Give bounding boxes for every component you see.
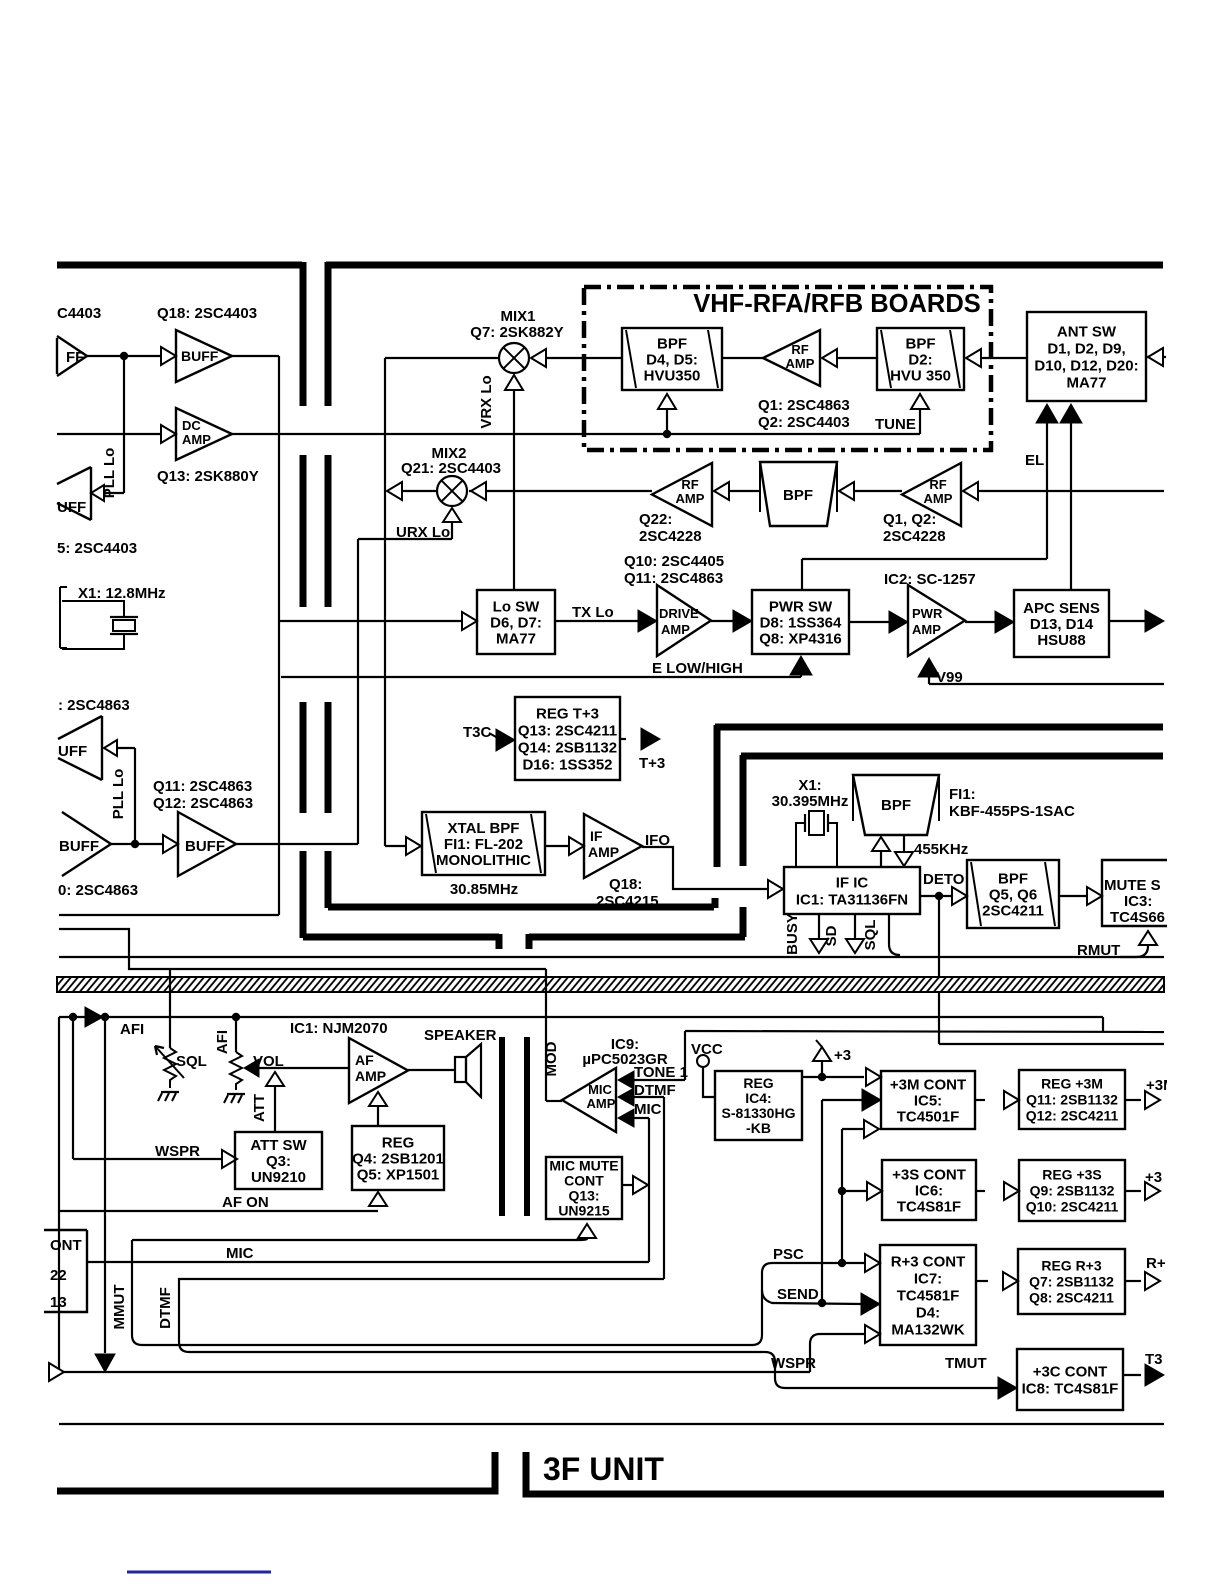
svg-text:30.395MHz: 30.395MHz: [772, 793, 849, 810]
svg-text:AFI: AFI: [120, 1021, 144, 1038]
wire heavy board-border B inner top horizontal y=727: [715, 724, 1163, 731]
svg-text:SD: SD: [823, 925, 840, 946]
wire BPF to RF AMP Q1Q2: [851, 490, 902, 492]
wire BPF455 up arrow: [880, 852, 882, 867]
box +3C CONT IC8: [1017, 1349, 1123, 1410]
filter BPF middle: [760, 462, 837, 526]
svg-text:IC5:: IC5:: [914, 1092, 942, 1109]
svg-text:T3: T3: [1145, 1351, 1163, 1368]
amplifier RF AMP (in dashed box): [763, 330, 820, 386]
wire REG R+3 output: [1125, 1280, 1141, 1282]
svg-text:MUTE S: MUTE S: [1104, 877, 1161, 894]
resistor potentiometer VOL: [230, 1052, 242, 1090]
wire RF AMP to BPF D2: [837, 357, 877, 359]
wire WSPR route: [810, 1334, 865, 1372]
wire VOL pot feed: [235, 1017, 237, 1052]
svg-text:R+: R+: [1146, 1255, 1166, 1272]
svg-text:UFF: UFF: [57, 499, 86, 516]
svg-text:MA77: MA77: [1066, 374, 1106, 391]
wire bus y=957: [59, 956, 1164, 958]
svg-text:REG: REG: [382, 1134, 415, 1151]
svg-text:UN9215: UN9215: [558, 1202, 610, 1218]
svg-text:REG R+3: REG R+3: [1041, 1257, 1102, 1273]
wire DTMF input: [618, 1088, 634, 1106]
wire BUFF Q18 output to corner x279: [232, 355, 279, 357]
amplifier PWR AMP IC2: [908, 585, 965, 656]
buffer amp BUFF Q18: [161, 347, 176, 365]
svg-text:TX Lo: TX Lo: [572, 604, 614, 621]
mixer MIX2 Q21: [437, 476, 467, 506]
buffer amp partial bottom-left: [62, 812, 111, 876]
svg-text:IC3:: IC3:: [1124, 893, 1152, 910]
svg-text:PLL Lo: PLL Lo: [110, 769, 127, 820]
wire DRIVE to PWR SW: [711, 620, 734, 622]
svg-text:TONE 1: TONE 1: [634, 1064, 688, 1081]
wire PSC vertical to +3M/+3S: [841, 1129, 843, 1263]
wire XTAL BPF to IF AMP: [545, 845, 568, 847]
svg-text:KBF-455PS-1SAC: KBF-455PS-1SAC: [949, 803, 1075, 820]
svg-text:Q18: 2SC4403: Q18: 2SC4403: [157, 305, 257, 322]
svg-text:BPF: BPF: [881, 797, 911, 814]
svg-text:+3C CONT: +3C CONT: [1033, 1363, 1108, 1380]
svg-text:MIC MUTE: MIC MUTE: [549, 1157, 618, 1173]
wire buffer output to junction: [87, 355, 160, 357]
wire MIX2 input from RF AMP: [469, 490, 652, 492]
svg-text:HVU350: HVU350: [644, 367, 701, 384]
wire DTMF route: [179, 1279, 765, 1352]
box VHF-RFA/RFB BOARDS dashed border: [584, 287, 991, 450]
wire MIC route: [87, 1261, 649, 1263]
svg-text:AMP: AMP: [355, 1068, 386, 1084]
svg-text:WSPR: WSPR: [771, 1355, 816, 1372]
wire bottom thin line: [59, 1423, 1164, 1425]
svg-text:AMP: AMP: [924, 491, 953, 506]
svg-text:ATT SW: ATT SW: [250, 1137, 307, 1154]
amplifier MIC AMP IC9: [562, 1068, 616, 1132]
svg-text:13: 13: [50, 1294, 67, 1311]
svg-text:Q22:: Q22:: [639, 511, 672, 528]
svg-text:WSPR: WSPR: [155, 1143, 200, 1160]
svg-text:D13, D14: D13, D14: [1030, 616, 1094, 633]
svg-text:AMP: AMP: [912, 622, 941, 637]
box ATT SW Q3 UN9210: [235, 1132, 322, 1189]
wire MIC input: [618, 1109, 634, 1127]
wire T+3 output: [620, 738, 626, 740]
wire V99: [918, 658, 940, 677]
wire REG +3M output: [1125, 1099, 1141, 1101]
svg-text:-KB: -KB: [746, 1120, 771, 1136]
svg-text:TC4581F: TC4581F: [897, 1287, 960, 1304]
filter BPF D4 D5 HVU350: [622, 328, 722, 390]
buffer amp partial top-left: [57, 336, 87, 376]
wire VOL wiper to AF AMP: [244, 1059, 259, 1077]
svg-text:+3S CONT: +3S CONT: [892, 1166, 966, 1183]
svg-text:PWR: PWR: [912, 606, 943, 621]
svg-text:Q18:: Q18:: [609, 876, 642, 893]
box +3M CONT IC5: [881, 1071, 975, 1129]
svg-text:Q5: XP1501: Q5: XP1501: [357, 1166, 440, 1183]
svg-text:D2:: D2:: [908, 351, 932, 368]
svg-text:D6, D7:: D6, D7:: [490, 614, 542, 631]
svg-text:REG: REG: [743, 1075, 773, 1091]
svg-text:T+3: T+3: [639, 755, 665, 772]
crystal X1 30.395MHz: [804, 814, 806, 832]
box ANT SW: [1027, 312, 1146, 401]
svg-text:Q5, Q6: Q5, Q6: [989, 886, 1037, 903]
svg-text:Q8: 2SC4211: Q8: 2SC4211: [1029, 1289, 1114, 1305]
wire MIX1 input from BPF: [546, 357, 622, 359]
wire PLL Lo feedback down: [123, 356, 125, 493]
amplifier DRIVE AMP: [657, 585, 711, 656]
svg-text:IC8: TC4S81F: IC8: TC4S81F: [1022, 1380, 1119, 1397]
resistor potentiometer SQL: [164, 1048, 176, 1088]
wire left border vertical: [58, 1017, 60, 1372]
svg-text:TC4S81F: TC4S81F: [897, 1198, 961, 1215]
speaker symbol: [408, 1069, 455, 1071]
svg-text:FI1: FL-202: FI1: FL-202: [444, 836, 523, 853]
svg-text:IC1: NJM2070: IC1: NJM2070: [290, 1020, 388, 1037]
wire +3C output: [1123, 1374, 1141, 1376]
svg-text:XTAL BPF: XTAL BPF: [448, 820, 520, 837]
power +3 flag: [821, 1062, 823, 1077]
wire RF input from right: [978, 490, 1164, 492]
box MUTE S IC3 (cut at edge): [1102, 860, 1180, 926]
svg-text:IC4:: IC4:: [745, 1090, 771, 1106]
wire TONE1/top line to edge: [685, 1031, 1164, 1032]
mixer MIX1 Q7: [499, 343, 529, 373]
wire ATT arrow up: [266, 1072, 284, 1086]
wire MIC MUTE bottom input: [578, 1224, 596, 1238]
wire VRX Lo vertical: [513, 375, 515, 590]
wire DETO output: [920, 895, 951, 897]
svg-text:S-81330HG: S-81330HG: [722, 1105, 796, 1121]
svg-text:BUFF: BUFF: [59, 838, 99, 855]
svg-text:0: 2SC4863: 0: 2SC4863: [58, 882, 138, 899]
wire +3M to REG: [975, 1099, 985, 1101]
svg-text:MMUT: MMUT: [111, 1285, 128, 1330]
svg-text:+3M CONT: +3M CONT: [890, 1076, 966, 1093]
svg-text:RF: RF: [681, 477, 698, 492]
svg-text:D1, D2, D9,: D1, D2, D9,: [1047, 340, 1125, 357]
box REG R+3: [1018, 1249, 1125, 1314]
svg-text:Lo SW: Lo SW: [493, 598, 540, 615]
svg-text:X1:: X1:: [798, 777, 821, 794]
svg-text:BPF: BPF: [998, 870, 1028, 887]
svg-text:Q13: 2SK880Y: Q13: 2SK880Y: [157, 468, 259, 485]
wire +3M input arrows: [866, 1068, 881, 1086]
svg-text:: 2SC4863: : 2SC4863: [58, 697, 130, 714]
wire DTMF vertical x=664: [663, 1097, 665, 1279]
svg-text:REG +3M: REG +3M: [1041, 1075, 1103, 1091]
svg-text:Q14: 2SB1132: Q14: 2SB1132: [518, 739, 617, 756]
wire BPF D2 up arrow TUNE: [919, 410, 921, 434]
buffer amp BUFF Q11 Q12: [163, 835, 178, 853]
svg-text:DRIVE: DRIVE: [659, 606, 699, 621]
wire PWR SW to PWR AMP: [849, 621, 890, 623]
wire SD down arrow: [854, 914, 856, 938]
wire SQL curve to bus: [889, 914, 900, 955]
wire TUNE line y=434 (DC AMP output): [232, 433, 920, 435]
svg-text:Q13: 2SC4211: Q13: 2SC4211: [518, 722, 617, 739]
wire BUFF3 out: [111, 843, 162, 845]
wire AF ON line: [59, 1210, 378, 1212]
svg-text:TC4501F: TC4501F: [897, 1108, 960, 1125]
wire heavy board-border A left vertical dashes x=303: [300, 262, 307, 406]
filter XTAL BPF FI1 FL-202: [422, 812, 545, 875]
svg-text:+3: +3: [1145, 1169, 1162, 1186]
wire heavy board-border A lower horizontal y=937: [303, 934, 499, 941]
wire URX Lo to MIX2: [358, 538, 452, 540]
svg-text:ONT: ONT: [50, 1237, 82, 1254]
box REG IC4 S-81330HG-KB: [715, 1071, 802, 1140]
svg-text:MIC: MIC: [588, 1082, 612, 1097]
svg-text:AMP: AMP: [786, 356, 815, 371]
svg-text:BPF: BPF: [783, 487, 813, 504]
svg-text:+3: +3: [834, 1047, 851, 1064]
wire T3C input: [496, 729, 515, 751]
amplifier AF AMP IC1: [349, 1038, 408, 1103]
wire BPF D2 input: [978, 357, 1027, 359]
amplifier RF AMP Q22: [652, 463, 712, 526]
wire PLL2 feedback: [134, 748, 136, 844]
wire ANT SW input from right: [1146, 356, 1166, 358]
svg-text:ANT SW: ANT SW: [1057, 323, 1117, 340]
wire TX Lo: [555, 620, 638, 622]
box REG T+3: [515, 697, 620, 780]
box REG +3S: [1019, 1160, 1125, 1221]
svg-text:VCC: VCC: [691, 1041, 723, 1058]
svg-text:X1: 12.8MHz: X1: 12.8MHz: [78, 585, 166, 602]
filter BPF Q5 Q6: [967, 860, 1059, 928]
wire SEND branch: [762, 1290, 862, 1304]
svg-text:Q11: 2SC4863: Q11: 2SC4863: [624, 570, 723, 587]
svg-text:UFF: UFF: [58, 743, 87, 760]
wire AF AMP reg arrow: [369, 1092, 387, 1106]
amplifier DC AMP Q13: [161, 425, 176, 443]
wire REG IC4 output: [802, 1076, 864, 1078]
svg-text:EL: EL: [1025, 452, 1044, 469]
svg-text:AMP: AMP: [588, 844, 619, 860]
wire mid-left y=929 jog and y=969 line: [59, 929, 546, 969]
wire AFI bus y=1017: [59, 1016, 1103, 1018]
wire SEND vertical to +3M: [821, 1100, 823, 1303]
wire heavy board-border B inner vertical x=717: [714, 725, 721, 867]
svg-text:Q12: 2SC4211: Q12: 2SC4211: [1026, 1107, 1119, 1123]
svg-text:Q10: 2SC4405: Q10: 2SC4405: [624, 553, 724, 570]
svg-text:455KHz: 455KHz: [914, 841, 968, 858]
svg-text:MA77: MA77: [496, 630, 536, 647]
wire MIC MUTE output: [622, 1184, 632, 1186]
wire BUSY down arrow: [818, 914, 820, 938]
wire +3C input arrow: [998, 1377, 1017, 1399]
wire R+3 input arrows: [865, 1254, 880, 1272]
svg-text:2SC4228: 2SC4228: [883, 528, 946, 545]
box cut CONT at left edge: [44, 1230, 87, 1312]
svg-text:IF: IF: [590, 828, 603, 844]
amplifier IF AMP Q18: [584, 814, 642, 878]
wire MMUT vertical: [132, 1240, 752, 1345]
wire AFI jog down: [1102, 1017, 1104, 1032]
svg-text:UN9210: UN9210: [251, 1169, 306, 1186]
svg-text:D4:: D4:: [916, 1304, 940, 1321]
wire REG +3S output: [1125, 1190, 1141, 1192]
wire BUFF out y=844 to x=358: [236, 843, 358, 845]
svg-text:AMP: AMP: [676, 491, 705, 506]
filter BPF D2 HVU 350: [877, 328, 964, 390]
buffer amp feedback bottom (left-pointing, cut): [104, 740, 117, 756]
wire MMUT long vertical x=107: [104, 1017, 106, 1353]
page margin mask right: [1167, 0, 1224, 1584]
wire PLL return y=915: [59, 914, 279, 916]
svg-text:APC SENS: APC SENS: [1023, 600, 1100, 617]
node junction PLL Lo bottom: [131, 840, 139, 848]
svg-text:TMUT: TMUT: [945, 1355, 987, 1372]
node junction TUNE-BPF1: [663, 430, 671, 438]
svg-text:CONT: CONT: [564, 1172, 604, 1188]
wire heavy board-border B left vertical dashes x=328: [325, 262, 332, 406]
svg-text:DTMF: DTMF: [634, 1082, 676, 1099]
svg-text:IC7:: IC7:: [914, 1270, 942, 1287]
svg-text:3F UNIT: 3F UNIT: [543, 1451, 664, 1487]
svg-text:Q3:: Q3:: [266, 1153, 291, 1170]
svg-text:AF ON: AF ON: [222, 1194, 269, 1211]
svg-text:REG T+3: REG T+3: [536, 705, 599, 722]
wire MIX1 output to IF bus: [385, 357, 499, 359]
svg-text:Q10: 2SC4211: Q10: 2SC4211: [1026, 1198, 1119, 1214]
wire BPF1 up arrow: [666, 410, 668, 434]
svg-text:DC: DC: [182, 418, 201, 433]
svg-text:2SC4228: 2SC4228: [639, 528, 702, 545]
wire URX Lo vertical x=358: [357, 539, 359, 844]
svg-text:FI1:: FI1:: [949, 786, 976, 803]
box MIC MUTE CONT: [546, 1157, 622, 1219]
wire heavy bottom-right border: [526, 1452, 1164, 1494]
svg-text:HVU 350: HVU 350: [890, 367, 951, 384]
wire TMUT route: [765, 1352, 999, 1388]
crystal X1 12.8MHz: [60, 587, 67, 648]
svg-text:Q11: 2SC4863: Q11: 2SC4863: [153, 778, 252, 795]
svg-text:MIC: MIC: [226, 1245, 254, 1262]
wire heavy board-border A inner top horizontal y=756: [741, 753, 1163, 760]
wire heavy board-border speaker dash pair: [499, 1037, 505, 1216]
svg-text:TUNE: TUNE: [875, 416, 916, 433]
wire RMUT curve up to MUTE S: [1120, 946, 1148, 957]
filter BPF 455KHz ceramic: [853, 775, 939, 835]
wire ANT SW APC output: [1060, 404, 1082, 423]
svg-text:Q9: 2SB1132: Q9: 2SB1132: [1030, 1182, 1115, 1198]
svg-text:V99: V99: [936, 669, 963, 686]
svg-text:SQL: SQL: [176, 1053, 207, 1070]
wire MOD vertical: [545, 969, 547, 1101]
svg-text:MIX1: MIX1: [500, 308, 535, 325]
svg-text:VHF-RFA/RFB BOARDS: VHF-RFA/RFB BOARDS: [693, 290, 981, 318]
wire RF AMP Q22 to BPF: [729, 490, 760, 492]
box +3S CONT IC6: [882, 1160, 976, 1220]
box R+3 CONT IC7: [880, 1245, 976, 1345]
box REG +3M: [1019, 1070, 1125, 1129]
svg-text:Q4: 2SB1201: Q4: 2SB1201: [352, 1150, 444, 1167]
svg-text:PSC: PSC: [773, 1246, 804, 1263]
wire +3S input arrow: [867, 1182, 882, 1200]
ground VOL: [227, 1093, 245, 1095]
svg-text:REG +3S: REG +3S: [1042, 1166, 1102, 1182]
wire PWR AMP to APC: [965, 621, 997, 623]
svg-text:RF: RF: [929, 477, 946, 492]
svg-text:Q13:: Q13:: [568, 1187, 599, 1203]
wire MIC vertical x=649: [648, 1118, 650, 1262]
wire APC output: [1109, 620, 1146, 622]
svg-text:MA132WK: MA132WK: [891, 1321, 965, 1338]
svg-text:URX Lo: URX Lo: [396, 524, 450, 541]
wire heavy board-border A top-left horizontal: [57, 262, 302, 269]
svg-text:AF: AF: [355, 1052, 374, 1068]
wire PSC riser: [752, 1263, 865, 1345]
svg-text:R+3 CONT: R+3 CONT: [891, 1253, 966, 1270]
node junction PLL Lo top: [120, 352, 128, 360]
svg-text:SPEAKER: SPEAKER: [424, 1027, 497, 1044]
amplifier RF AMP Q1 Q2: [902, 463, 961, 526]
wire Lo SW input: [279, 620, 462, 622]
svg-text:Q1: 2SC4863: Q1: 2SC4863: [758, 397, 850, 414]
wire heavy board-border A inner vertical x=743: [740, 907, 747, 937]
svg-text:DTMF: DTMF: [157, 1287, 174, 1329]
wire WSPR from AFI: [72, 1017, 74, 1159]
svg-text:2SC4215: 2SC4215: [596, 893, 659, 910]
svg-text:BPF: BPF: [657, 335, 687, 352]
wire BPF to MUTE S: [1059, 895, 1086, 897]
svg-text:BUFF: BUFF: [185, 838, 225, 855]
svg-text:D16: 1SS352: D16: 1SS352: [522, 756, 612, 773]
wire DC AMP input: [57, 433, 160, 435]
svg-text:TC4S66: TC4S66: [1110, 909, 1165, 926]
svg-text:AMP: AMP: [661, 622, 690, 637]
svg-text:BUFF: BUFF: [181, 348, 219, 364]
svg-text:DETO: DETO: [923, 871, 965, 888]
svg-text:D10, D12, D20:: D10, D12, D20:: [1034, 357, 1138, 374]
svg-text:Q12: 2SC4863: Q12: 2SC4863: [153, 795, 253, 812]
svg-text:RMUT: RMUT: [1077, 942, 1120, 959]
svg-text:MONOLITHIC: MONOLITHIC: [436, 852, 531, 869]
svg-text:Q1, Q2:: Q1, Q2:: [883, 511, 936, 528]
svg-text:AMP: AMP: [182, 432, 211, 447]
svg-text:AFI: AFI: [214, 1030, 231, 1054]
svg-text:D4, D5:: D4, D5:: [646, 351, 698, 368]
svg-text:IC2: SC-1257: IC2: SC-1257: [884, 571, 976, 588]
wire SQL pot feed: [169, 969, 171, 1048]
svg-text:SQL: SQL: [862, 920, 879, 951]
svg-text:VRX Lo: VRX Lo: [478, 375, 495, 428]
wire vertical bus x=279: [278, 356, 280, 915]
wire heavy board-border B lower horizontal y=907: [328, 904, 714, 911]
box REG Q4 Q5: [352, 1126, 444, 1190]
svg-text:Q7: 2SK882Y: Q7: 2SK882Y: [470, 324, 563, 341]
svg-text:SEND: SEND: [777, 1286, 819, 1303]
wire +3S to REG: [976, 1190, 985, 1192]
svg-text:Q8: XP4316: Q8: XP4316: [759, 630, 842, 647]
svg-text:AMP: AMP: [587, 1096, 616, 1111]
wire heavy board-border B top-right horizontal: [326, 262, 1163, 269]
svg-text:E LOW/HIGH: E LOW/HIGH: [652, 660, 743, 677]
svg-text:FF: FF: [66, 349, 84, 366]
wire DETO vertical to bottom section: [938, 896, 940, 1044]
svg-text:22: 22: [50, 1267, 67, 1284]
svg-text:PWR SW: PWR SW: [769, 598, 833, 615]
wire R+3 to REG: [976, 1280, 988, 1282]
svg-text:IC1: TA31136FN: IC1: TA31136FN: [796, 891, 908, 908]
svg-text:C4403: C4403: [57, 305, 101, 322]
box PWR SW: [752, 590, 849, 654]
buffer amp feedback top (left-pointing, cut): [91, 485, 104, 501]
